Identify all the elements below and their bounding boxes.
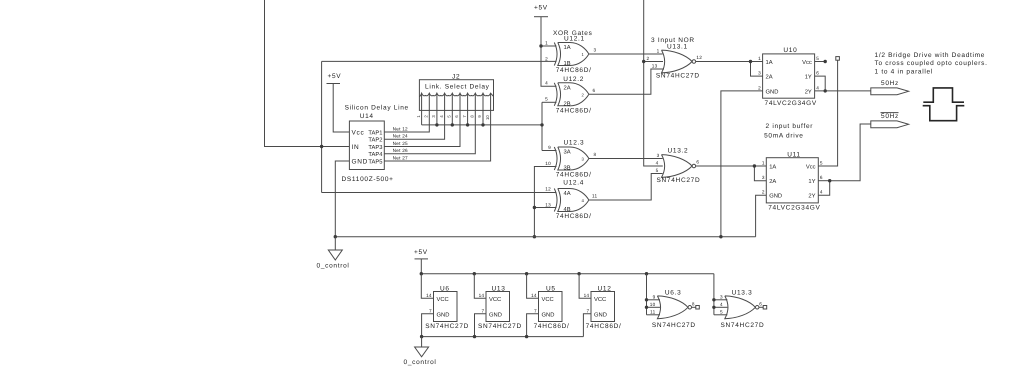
wire: U12.3 out to U13.2 pin3 <box>589 152 663 159</box>
svg-text:Vcc: Vcc <box>352 129 365 136</box>
wire: +5V ties to U13.3 inputs <box>712 274 727 315</box>
svg-text:SN74HC27D: SN74HC27D <box>425 323 469 330</box>
junction: U11 output tie <box>828 179 831 182</box>
junction: on 0_control rail <box>533 235 536 238</box>
svg-text:10: 10 <box>650 302 656 307</box>
junction: U13 VCC drop <box>473 272 476 275</box>
ground 0_control (bottom) <box>404 337 437 366</box>
svg-text:1A: 1A <box>564 45 571 51</box>
wire: 0_control rail (middle) <box>334 235 756 238</box>
wire: U10 1Y/2Y tie to 50Hz flag <box>815 76 871 93</box>
net flag 50Hz (high side) <box>871 80 909 95</box>
power box U13 (SN74HC27D) <box>478 285 522 330</box>
pin 4 <box>439 93 445 117</box>
junction: U12 VCC drop <box>577 272 580 275</box>
wire: +5V to U14 Vcc <box>333 84 349 133</box>
junction: U6.3 feed drop <box>645 272 648 275</box>
svg-text:Net 27: Net 27 <box>393 155 408 160</box>
pin 5 <box>447 93 453 117</box>
svg-text:U13.3: U13.3 <box>732 289 753 296</box>
junction: bus at J2 pin3 <box>435 123 438 126</box>
wire: U11 Vcc riser to open end square <box>818 57 839 166</box>
junction: bus at J2 pin5 <box>451 123 454 126</box>
svg-text:U12: U12 <box>598 285 612 292</box>
pin 9 <box>477 93 483 117</box>
wire: TAP3 to J2 pin6 (Net 25) <box>384 110 460 146</box>
svg-text:VCC: VCC <box>594 296 606 303</box>
svg-text:TAP3: TAP3 <box>368 144 382 151</box>
junction: ground drop <box>334 235 337 238</box>
svg-text:1: 1 <box>545 40 548 45</box>
svg-text:74LVC2G34GV: 74LVC2G34GV <box>768 205 820 212</box>
open-end square: U13.3 output <box>759 306 763 308</box>
svg-text:J2: J2 <box>452 74 460 81</box>
wire: off-page net to U13.1 pin2 and U13.2 pin4 <box>642 0 663 166</box>
svg-text:10: 10 <box>485 115 490 120</box>
svg-text:GND: GND <box>766 88 779 95</box>
svg-text:4: 4 <box>656 161 659 166</box>
svg-text:3: 3 <box>431 115 436 118</box>
svg-text:1A: 1A <box>766 60 773 66</box>
svg-text:14: 14 <box>531 293 537 298</box>
wire: U5 VCC feed <box>527 274 539 299</box>
svg-text:14: 14 <box>479 293 485 298</box>
svg-text:Net 26: Net 26 <box>393 148 408 153</box>
wire: +5V net to U12.1 pin1 and U12.2 pin4 <box>539 17 556 87</box>
power +5V symbol (top, feeds U12.1/U12.2) <box>534 5 548 17</box>
pin 1 <box>416 93 422 117</box>
buffer U10 (74LVC2G34) <box>758 47 819 107</box>
wire: bottom ground rail <box>420 335 584 338</box>
svg-text:14: 14 <box>426 293 432 298</box>
svg-text:5: 5 <box>720 310 723 315</box>
wire: U12.3 pin10 / U12.4 pin13 to 0_control <box>533 167 557 239</box>
svg-text:Net 25: Net 25 <box>393 141 408 146</box>
svg-text:U12.4: U12.4 <box>563 180 584 187</box>
svg-text:4: 4 <box>820 190 823 195</box>
svg-text:+5V: +5V <box>414 249 428 256</box>
svg-text:74LVC2G34GV: 74LVC2G34GV <box>765 100 817 107</box>
wire: U10 Vcc stub with net dot <box>815 60 827 63</box>
svg-text:5: 5 <box>656 168 659 173</box>
nor gate U13.1 (SN74HC27) <box>646 43 702 79</box>
svg-text:1/2 Bridge Drive with Deadtime: 1/2 Bridge Drive with Deadtime <box>875 52 986 59</box>
svg-text:3A: 3A <box>564 149 571 156</box>
svg-text:+5V: +5V <box>534 5 548 12</box>
svg-text:1 to 4 in parallel: 1 to 4 in parallel <box>875 68 934 75</box>
wire: delayed-tap select bus (J2 odd pins to U12.2 pin5 / U12.3 pin9) <box>422 102 557 150</box>
wire: TAP4 to J2 pin8 (Net 26) <box>384 110 475 153</box>
wire: U13.1 out to U10 1A/2A <box>696 60 763 76</box>
svg-text:12: 12 <box>696 55 702 60</box>
svg-text:4: 4 <box>720 302 723 307</box>
xor gate U12.1 (74HC86) <box>545 36 592 74</box>
svg-text:SN74HC27D: SN74HC27D <box>657 177 701 184</box>
svg-text:7: 7 <box>534 308 537 313</box>
svg-text:2A: 2A <box>564 85 571 92</box>
junction: U10 output tie <box>824 89 827 92</box>
junction: U6.3 pin10 <box>645 306 648 309</box>
xor gate U12.4 (74HC86) <box>545 180 591 221</box>
svg-text:SN74HC27D: SN74HC27D <box>478 323 522 330</box>
svg-text:74HC86D/: 74HC86D/ <box>556 67 592 74</box>
svg-text:6: 6 <box>696 160 699 165</box>
svg-text:Net 24: Net 24 <box>393 134 408 139</box>
svg-text:To cross coupled opto couplers: To cross coupled opto couplers. <box>875 60 988 67</box>
svg-text:7: 7 <box>481 308 484 313</box>
svg-text:2: 2 <box>545 56 548 61</box>
svg-text:3: 3 <box>762 175 765 180</box>
svg-text:3: 3 <box>720 295 723 300</box>
pin 8 <box>470 93 476 117</box>
wire: U12 VCC feed <box>579 274 591 299</box>
junction: U5 VCC drop <box>525 272 528 275</box>
junction: pin13 tap <box>533 206 536 209</box>
wire: U13.2 out to U11 1A/2A <box>696 164 767 180</box>
svg-text:10: 10 <box>545 161 551 166</box>
svg-text:Silicon Delay Line: Silicon Delay Line <box>345 105 409 112</box>
svg-text:IN: IN <box>352 144 360 151</box>
svg-text:TAP2: TAP2 <box>368 137 382 144</box>
svg-text:GND: GND <box>489 312 502 319</box>
pin 7 <box>462 93 468 117</box>
svg-text:13: 13 <box>545 202 551 207</box>
junction: bus to XOR feed riser <box>540 123 543 126</box>
wire: U13 GND drop <box>475 314 487 337</box>
svg-text:2Y: 2Y <box>805 88 812 95</box>
svg-text:7: 7 <box>429 308 432 313</box>
svg-text:3: 3 <box>657 153 660 158</box>
net flag 50Hz inverted (low side) <box>871 113 909 128</box>
power box U12 (74HC86D) <box>584 285 622 330</box>
pin 10 <box>485 93 491 120</box>
svg-text:2: 2 <box>424 115 429 118</box>
svg-text:9: 9 <box>653 295 656 300</box>
svg-text:9: 9 <box>548 145 551 150</box>
junction: U13 GND <box>473 335 476 338</box>
svg-text:2: 2 <box>762 190 765 195</box>
svg-text:TAP4: TAP4 <box>368 152 383 158</box>
junction: U11 input tie <box>753 164 756 167</box>
svg-text:5: 5 <box>820 160 823 165</box>
junction: +5V drop <box>420 272 423 275</box>
svg-text:1Y: 1Y <box>805 75 812 81</box>
svg-text:U13.2: U13.2 <box>668 148 689 155</box>
xor gate U12.2 (74HC86) <box>545 76 592 114</box>
svg-text:74HC86D/: 74HC86D/ <box>534 323 570 330</box>
svg-text:U6.3: U6.3 <box>665 289 682 296</box>
svg-text:8: 8 <box>470 115 475 118</box>
junction: U6.3 pin9 <box>645 298 648 301</box>
wire: U12.2 out to U13.1 pin13 <box>589 69 664 94</box>
power +5V symbol (bottom rail) <box>414 249 428 259</box>
wire: U11 GND to 0_control <box>756 195 767 237</box>
svg-text:7: 7 <box>462 115 467 118</box>
svg-text:2 input buffer: 2 input buffer <box>766 123 814 130</box>
delay line U14 <box>342 105 409 184</box>
svg-text:2A: 2A <box>769 178 776 185</box>
pin 3 <box>431 93 437 117</box>
svg-text:5: 5 <box>545 97 548 102</box>
svg-text:74HC86D/: 74HC86D/ <box>586 323 622 330</box>
svg-text:1: 1 <box>758 56 761 61</box>
svg-text:2Y: 2Y <box>808 193 815 200</box>
svg-text:4: 4 <box>582 198 585 203</box>
svg-text:50Hz: 50Hz <box>881 113 899 120</box>
svg-text:4: 4 <box>816 85 819 90</box>
svg-text:GND: GND <box>594 312 607 319</box>
junction: U13.3 pin4 <box>712 306 715 309</box>
svg-text:U10: U10 <box>783 47 797 54</box>
svg-text:U13: U13 <box>492 285 506 292</box>
svg-text:Link. Select Delay: Link. Select Delay <box>425 84 490 91</box>
pin 6 <box>454 93 460 117</box>
svg-text:50Hz: 50Hz <box>881 80 899 87</box>
svg-text:U12.1: U12.1 <box>564 36 585 43</box>
junction: bus at J2 pin9 <box>481 123 484 126</box>
svg-text:GND: GND <box>352 158 369 165</box>
svg-text:74HC86D/: 74HC86D/ <box>556 213 592 220</box>
svg-text:6: 6 <box>820 175 823 180</box>
svg-text:TAP1: TAP1 <box>368 130 382 136</box>
junction: U10 input tie <box>749 60 752 63</box>
svg-text:DS1100Z-500+: DS1100Z-500+ <box>342 176 394 183</box>
svg-text:GND: GND <box>769 193 782 200</box>
pin 2 <box>424 93 430 117</box>
svg-text:9: 9 <box>477 115 482 118</box>
svg-text:8: 8 <box>594 152 597 157</box>
wire: U11 1Y/2Y tie to 50Hz-bar flag <box>818 124 871 195</box>
svg-text:1: 1 <box>416 115 421 118</box>
nor gate U13.3 (SN74HC27, unused inputs tied high) <box>720 289 767 329</box>
wire: U12.4 out to U13.2 pin5 <box>589 174 663 201</box>
wire: U6 VCC feed <box>421 274 433 299</box>
junction: ground symbol <box>420 335 423 338</box>
svg-text:U12.2: U12.2 <box>563 76 584 83</box>
wire: +5V bottom rail <box>420 259 714 276</box>
svg-text:SN74HC27D: SN74HC27D <box>721 322 765 329</box>
wire: TAP1 to J2 pin2 (Net 12) <box>384 110 429 132</box>
svg-text:2: 2 <box>582 92 585 97</box>
svg-text:11: 11 <box>592 194 598 199</box>
svg-text:74HC86D/: 74HC86D/ <box>556 172 592 179</box>
svg-text:U5: U5 <box>546 285 556 292</box>
annotation: complementary drive waveform with deadtime <box>923 88 965 121</box>
open-end square: U6.3 output <box>692 306 696 308</box>
svg-text:3: 3 <box>758 71 761 76</box>
wire: TAP5 to J2 pin10 (Net 27) <box>384 110 490 161</box>
svg-text:13: 13 <box>652 64 658 69</box>
svg-text:4: 4 <box>439 115 444 118</box>
svg-text:1Y: 1Y <box>808 179 815 185</box>
svg-text:6: 6 <box>454 115 459 118</box>
wire: +5V ties to U6.3 inputs <box>645 274 660 315</box>
svg-text:GND: GND <box>437 312 450 319</box>
svg-text:U12.3: U12.3 <box>564 140 585 147</box>
xor gate U12.3 (74HC86) <box>545 140 591 179</box>
svg-text:VCC: VCC <box>437 296 449 303</box>
svg-text:0_control: 0_control <box>404 359 437 366</box>
junction: U10 GND drop <box>719 235 722 238</box>
svg-text:U11: U11 <box>787 152 801 159</box>
svg-text:U13.1: U13.1 <box>667 43 688 50</box>
junction: at U13.1 pin2 <box>642 60 645 63</box>
svg-text:7: 7 <box>586 308 589 313</box>
svg-text:11: 11 <box>650 310 656 315</box>
svg-text:U14: U14 <box>360 113 374 120</box>
svg-text:2A: 2A <box>766 74 773 81</box>
nor gate U6.3 (SN74HC27, unused inputs tied high) <box>650 289 700 329</box>
svg-text:Vcc: Vcc <box>806 165 816 171</box>
svg-text:74HC86D/: 74HC86D/ <box>556 107 592 114</box>
ground 0_control (middle) <box>317 237 350 270</box>
svg-text:2: 2 <box>758 85 761 90</box>
svg-text:1: 1 <box>657 49 660 54</box>
wire: input signal net (off-page top to U14 IN, U12.1 1B, U12.4 4A) <box>265 0 557 193</box>
svg-text:5: 5 <box>816 56 819 61</box>
svg-text:50mA drive: 50mA drive <box>764 133 804 140</box>
svg-text:Vcc: Vcc <box>802 60 812 66</box>
svg-text:14: 14 <box>584 293 590 298</box>
nor gate U13.2 (SN74HC27) <box>656 148 701 185</box>
svg-text:4: 4 <box>545 81 548 86</box>
wire: U12 GND drop <box>583 314 591 337</box>
connector J2 link select delay <box>416 74 494 120</box>
junction: input net at U14 IN branch <box>320 145 323 148</box>
svg-text:1A: 1A <box>769 165 776 171</box>
wire: U5 GND drop <box>527 314 539 337</box>
junction: U5 GND <box>525 335 528 338</box>
svg-text:Net 12: Net 12 <box>393 126 408 131</box>
svg-text:4A: 4A <box>564 191 571 197</box>
svg-text:0_control: 0_control <box>317 263 350 270</box>
wire: U14 GND to 0_control rail <box>335 161 349 237</box>
svg-text:1: 1 <box>762 160 765 165</box>
svg-text:1: 1 <box>582 52 585 57</box>
svg-text:GND: GND <box>542 312 555 319</box>
note 1/2 bridge drive <box>875 52 988 76</box>
svg-text:3: 3 <box>582 157 585 162</box>
svg-text:3: 3 <box>594 48 597 53</box>
svg-text:12: 12 <box>545 186 551 191</box>
power +5V symbol (left, feeds U14 Vcc) <box>327 73 342 84</box>
svg-text:6: 6 <box>759 301 762 306</box>
junction: +5V at U12.1 pin1 <box>539 44 542 47</box>
power box U5 (74HC86D) <box>531 285 569 330</box>
power box U6 (SN74HC27D) <box>425 285 469 330</box>
svg-text:U6: U6 <box>440 285 450 292</box>
buffer U11 (74LVC2G34) <box>762 152 823 212</box>
wire: TAP2 to J2 pin4 (Net 24) <box>384 110 444 139</box>
wire: U10 GND to 0_control <box>721 91 763 237</box>
svg-text:VCC: VCC <box>489 296 501 303</box>
svg-text:8: 8 <box>692 301 695 306</box>
svg-text:TAP5: TAP5 <box>368 159 382 165</box>
svg-text:6: 6 <box>816 71 819 76</box>
junction: bus at J2 pin7 <box>466 123 469 126</box>
jumper scallops <box>419 93 493 96</box>
svg-text:5: 5 <box>447 115 452 118</box>
junction: U13.3 pin3 <box>712 298 715 301</box>
svg-text:6: 6 <box>593 88 596 93</box>
svg-text:SN74HC27D: SN74HC27D <box>652 322 696 329</box>
svg-text:SN74HC27D: SN74HC27D <box>656 73 700 80</box>
wire: U6 GND drop <box>422 314 434 337</box>
svg-text:2: 2 <box>646 56 649 61</box>
wire: U12.1 out to U13.1 pin1 <box>589 48 663 55</box>
svg-text:VCC: VCC <box>542 296 554 303</box>
svg-text:+5V: +5V <box>328 73 342 80</box>
wire: U13 VCC feed <box>474 274 486 299</box>
